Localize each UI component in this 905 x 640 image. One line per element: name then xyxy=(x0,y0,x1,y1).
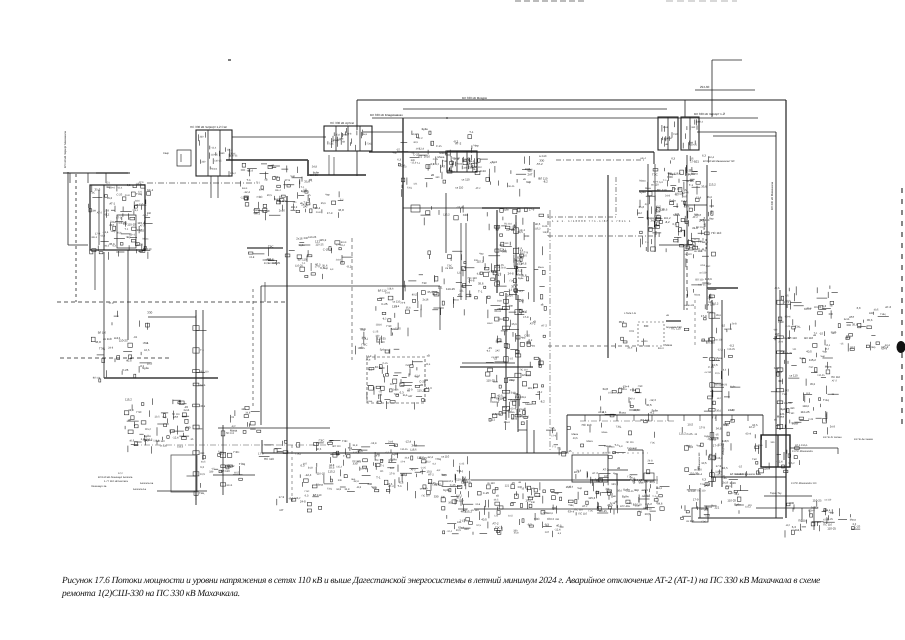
svg-text:10,5: 10,5 xyxy=(752,423,758,427)
svg-text:ГЭС: ГЭС xyxy=(627,476,632,479)
svg-text:-12,4: -12,4 xyxy=(717,349,723,352)
svg-text:ГЭС: ГЭС xyxy=(342,440,347,443)
svg-text:-15: -15 xyxy=(523,255,527,258)
svg-text:С-25: С-25 xyxy=(421,467,427,470)
svg-text:110-25: 110-25 xyxy=(727,348,735,351)
svg-text:34,8: 34,8 xyxy=(338,208,344,212)
svg-text:40,5: 40,5 xyxy=(413,141,418,144)
svg-text:6,3: 6,3 xyxy=(477,273,481,276)
svg-text:Маха: Маха xyxy=(211,167,218,170)
svg-text:115,2: 115,2 xyxy=(745,506,752,509)
svg-text:АТУ-41Б: АТУ-41Б xyxy=(620,505,631,508)
svg-text:2x16: 2x16 xyxy=(184,409,190,412)
svg-text:Чир: Чир xyxy=(474,143,480,147)
svg-text:330: 330 xyxy=(552,506,557,510)
svg-text:17-9: 17-9 xyxy=(700,248,706,252)
svg-text:35,6: 35,6 xyxy=(107,197,113,200)
svg-text:ГЭС: ГЭС xyxy=(789,412,794,415)
svg-text:ТЭЦ: ТЭЦ xyxy=(253,212,258,215)
svg-text:Т-1: Т-1 xyxy=(256,181,260,184)
svg-text:10,5: 10,5 xyxy=(155,416,161,419)
svg-text:ПС 110: ПС 110 xyxy=(520,369,529,372)
svg-text:Махачкала 110: Махачкала 110 xyxy=(698,452,701,470)
svg-text:ПС 110: ПС 110 xyxy=(671,327,681,331)
svg-text:С-25: С-25 xyxy=(483,491,490,495)
svg-text:6,3: 6,3 xyxy=(141,438,145,441)
svg-text:2x16: 2x16 xyxy=(610,502,616,505)
svg-text:17-9: 17-9 xyxy=(389,473,395,476)
svg-text:115,2: 115,2 xyxy=(709,183,716,187)
svg-text:35,6: 35,6 xyxy=(329,466,335,470)
svg-text:35,6: 35,6 xyxy=(512,323,518,326)
svg-text:Чир: Чир xyxy=(709,217,714,220)
svg-text:ВЛ 110: ВЛ 110 xyxy=(724,328,732,331)
svg-text:ск 110: ск 110 xyxy=(136,202,144,206)
svg-text:ПС 110: ПС 110 xyxy=(375,459,384,462)
svg-text:ВЛ 330 кВ Махачкала: ВЛ 330 кВ Махачкала xyxy=(770,182,774,210)
svg-text:2АТ: 2АТ xyxy=(704,483,709,487)
svg-text:115,2: 115,2 xyxy=(291,206,298,209)
svg-text:2АТ: 2АТ xyxy=(638,212,643,215)
svg-text:2АТ: 2АТ xyxy=(811,507,816,510)
svg-text:ТЭЦ: ТЭЦ xyxy=(795,325,800,328)
svg-text:330: 330 xyxy=(524,234,529,238)
svg-text:ПС 110: ПС 110 xyxy=(504,222,512,225)
svg-text:24-8: 24-8 xyxy=(663,126,668,129)
svg-text:10,5: 10,5 xyxy=(387,482,393,486)
svg-text:ВЛ 110: ВЛ 110 xyxy=(333,445,342,448)
svg-text:С-25: С-25 xyxy=(708,366,714,369)
svg-text:35,6: 35,6 xyxy=(635,505,640,508)
svg-text:6,3: 6,3 xyxy=(659,181,663,184)
svg-text:330: 330 xyxy=(846,323,851,327)
svg-text:35,6: 35,6 xyxy=(867,318,873,322)
svg-text:-15: -15 xyxy=(190,438,194,441)
svg-text:2АТ: 2АТ xyxy=(408,395,413,398)
svg-text:63+4: 63+4 xyxy=(702,241,708,244)
svg-text:35,6: 35,6 xyxy=(335,133,340,136)
svg-text:17-9: 17-9 xyxy=(461,480,467,483)
svg-text:ск 110: ск 110 xyxy=(651,184,659,187)
svg-text:121: 121 xyxy=(494,514,499,517)
svg-text:кВ: кВ xyxy=(613,495,616,498)
svg-text:ВЛ 330 кВ Моздок: ВЛ 330 кВ Моздок xyxy=(462,96,488,100)
svg-text:ск 110: ск 110 xyxy=(715,339,723,342)
svg-text:35,6: 35,6 xyxy=(109,242,115,246)
svg-text:330: 330 xyxy=(353,461,358,465)
svg-text:-12,4: -12,4 xyxy=(314,206,321,210)
svg-text:Буйн: Буйн xyxy=(144,434,151,438)
svg-text:34,8: 34,8 xyxy=(245,412,250,415)
svg-text:-12,4: -12,4 xyxy=(370,442,377,445)
svg-text:ТЭЦ: ТЭЦ xyxy=(99,346,106,350)
svg-text:С-25: С-25 xyxy=(785,325,791,328)
svg-text:-8,2: -8,2 xyxy=(650,412,655,415)
svg-text:6,3: 6,3 xyxy=(806,392,810,395)
svg-text:кВ: кВ xyxy=(617,467,620,470)
svg-text:24-8: 24-8 xyxy=(728,408,734,412)
svg-text:63+4: 63+4 xyxy=(641,157,647,160)
svg-text:330: 330 xyxy=(435,176,440,179)
svg-text:294-60: 294-60 xyxy=(700,85,710,89)
svg-text:6,3: 6,3 xyxy=(702,478,706,482)
svg-text:ск 110: ск 110 xyxy=(262,209,270,213)
svg-text:40,5: 40,5 xyxy=(775,287,780,290)
svg-text:-8,2: -8,2 xyxy=(368,369,373,372)
svg-text:330: 330 xyxy=(241,408,246,411)
svg-text:2x16: 2x16 xyxy=(279,209,286,213)
svg-text:АТ-2: АТ-2 xyxy=(823,518,829,521)
svg-text:Т-1: Т-1 xyxy=(478,290,483,294)
svg-text:-15: -15 xyxy=(738,466,742,469)
svg-text:2x16: 2x16 xyxy=(137,242,144,246)
svg-text:С-25: С-25 xyxy=(323,247,330,251)
svg-text:ГЭС: ГЭС xyxy=(652,173,658,177)
svg-text:кВ: кВ xyxy=(265,179,268,182)
svg-text:34,8: 34,8 xyxy=(345,488,350,491)
svg-text:С-25: С-25 xyxy=(383,362,389,365)
svg-text:-12,4: -12,4 xyxy=(405,439,412,443)
svg-text:ПС 110: ПС 110 xyxy=(264,457,274,461)
svg-text:40,5: 40,5 xyxy=(494,498,499,501)
svg-text:С-25: С-25 xyxy=(459,462,465,465)
svg-text:40,5: 40,5 xyxy=(503,406,508,409)
svg-text:Т-1: Т-1 xyxy=(522,310,527,314)
svg-text:2x16: 2x16 xyxy=(723,424,729,427)
svg-text:ПС 110: ПС 110 xyxy=(226,432,235,435)
svg-text:ГЭС: ГЭС xyxy=(510,280,515,283)
svg-text:АТ-2: АТ-2 xyxy=(630,398,636,401)
svg-text:ПС 330 кВ Артем: ПС 330 кВ Артем xyxy=(330,121,354,125)
svg-text:63+4: 63+4 xyxy=(776,370,783,374)
svg-text:115,2: 115,2 xyxy=(443,214,450,217)
svg-text:Чир: Чир xyxy=(871,346,876,349)
svg-text:17-9: 17-9 xyxy=(327,212,333,215)
svg-text:17-9: 17-9 xyxy=(407,388,413,391)
svg-text:121: 121 xyxy=(380,470,385,473)
svg-text:10,5: 10,5 xyxy=(645,512,651,516)
svg-text:121: 121 xyxy=(457,521,462,524)
svg-text:17-9: 17-9 xyxy=(453,157,459,161)
svg-text:2АТ: 2АТ xyxy=(519,299,524,303)
svg-text:110-25: 110-25 xyxy=(214,159,222,162)
svg-text:ск 110: ск 110 xyxy=(445,266,453,270)
svg-text:6,3: 6,3 xyxy=(619,445,623,448)
svg-text:35,6: 35,6 xyxy=(427,290,433,294)
svg-text:Маха: Маха xyxy=(619,411,626,415)
svg-text:121: 121 xyxy=(644,489,649,492)
svg-text:6,3: 6,3 xyxy=(200,466,204,469)
svg-text:-12,4: -12,4 xyxy=(305,473,312,477)
svg-text:41 ПС-Махачкала: 41 ПС-Махачкала xyxy=(792,450,813,453)
svg-text:ВЛ 330 кВ Чирюрт 1-Й: ВЛ 330 кВ Чирюрт 1-Й xyxy=(694,112,725,116)
svg-text:40,5: 40,5 xyxy=(264,262,269,265)
svg-text:ск 110: ск 110 xyxy=(686,180,694,183)
svg-text:2x16: 2x16 xyxy=(723,482,729,485)
svg-text:110-25: 110-25 xyxy=(801,410,810,414)
svg-text:121: 121 xyxy=(413,182,418,185)
svg-text:ВЛ 110: ВЛ 110 xyxy=(804,336,813,340)
svg-text:63+4: 63+4 xyxy=(492,400,499,404)
svg-text:34,8: 34,8 xyxy=(405,457,410,460)
svg-text:-12,4: -12,4 xyxy=(708,156,714,159)
svg-text:110-25: 110-25 xyxy=(690,143,698,146)
svg-text:330: 330 xyxy=(691,126,696,129)
svg-text:ТЭЦ: ТЭЦ xyxy=(327,488,332,491)
svg-text:115,2: 115,2 xyxy=(319,238,326,242)
svg-text:2x16: 2x16 xyxy=(844,318,850,321)
svg-text:кВ: кВ xyxy=(342,140,345,143)
svg-text:40,5: 40,5 xyxy=(650,480,656,484)
svg-text:110-25: 110-25 xyxy=(315,243,324,246)
svg-text:2АТ: 2АТ xyxy=(495,350,500,353)
svg-text:ГЭС: ГЭС xyxy=(673,133,678,136)
svg-text:121: 121 xyxy=(502,396,507,399)
svg-text:118,6: 118,6 xyxy=(785,299,791,302)
svg-text:115,2: 115,2 xyxy=(417,388,425,392)
svg-text:24-8: 24-8 xyxy=(700,264,705,267)
svg-text:Буйн: Буйн xyxy=(503,208,509,211)
svg-text:ГЭС: ГЭС xyxy=(422,282,427,285)
svg-text:35,6: 35,6 xyxy=(617,489,622,492)
svg-text:110-25: 110-25 xyxy=(400,448,408,451)
svg-text:17-9: 17-9 xyxy=(701,314,707,318)
svg-text:Т-1: Т-1 xyxy=(200,349,204,352)
svg-text:115,2: 115,2 xyxy=(230,172,236,175)
svg-text:кВ: кВ xyxy=(427,355,430,358)
svg-text:63+4: 63+4 xyxy=(92,236,98,239)
svg-text:24-8: 24-8 xyxy=(249,256,255,259)
svg-text:-12,4: -12,4 xyxy=(618,387,624,390)
svg-text:Маха: Маха xyxy=(777,414,785,418)
svg-text:6,3: 6,3 xyxy=(558,532,562,535)
svg-text:10,5: 10,5 xyxy=(492,413,497,416)
svg-text:С-25: С-25 xyxy=(373,330,379,333)
svg-text:АТ-2: АТ-2 xyxy=(885,305,891,309)
svg-text:2АТ: 2АТ xyxy=(775,333,780,336)
svg-text:ВЛ 110: ВЛ 110 xyxy=(98,332,107,335)
svg-text:63+4: 63+4 xyxy=(147,189,154,192)
svg-text:115,2: 115,2 xyxy=(664,216,671,220)
svg-text:330: 330 xyxy=(362,336,367,339)
svg-text:ВЛ 110: ВЛ 110 xyxy=(93,377,101,380)
svg-text:118,6: 118,6 xyxy=(177,445,184,448)
svg-text:-8,2: -8,2 xyxy=(104,213,109,217)
svg-text:Маха: Маха xyxy=(707,311,714,314)
svg-text:6,3: 6,3 xyxy=(853,523,857,526)
svg-text:121: 121 xyxy=(611,483,616,486)
svg-text:Т-1: Т-1 xyxy=(814,332,818,335)
svg-text:110-25: 110-25 xyxy=(817,374,825,377)
svg-text:кВ: кВ xyxy=(272,164,275,167)
svg-text:ск 110: ск 110 xyxy=(685,253,692,256)
svg-text:118,6: 118,6 xyxy=(722,439,729,443)
svg-text:2x16: 2x16 xyxy=(393,388,399,391)
svg-text:330: 330 xyxy=(463,213,468,217)
svg-text:35,6: 35,6 xyxy=(304,180,310,184)
svg-text:АТ-2: АТ-2 xyxy=(97,212,103,215)
svg-text:Чир: Чир xyxy=(126,235,131,239)
svg-text:Буйн: Буйн xyxy=(390,457,397,461)
svg-text:ск 110: ск 110 xyxy=(393,301,401,304)
svg-text:63+4: 63+4 xyxy=(696,473,702,476)
svg-text:6,3: 6,3 xyxy=(723,369,727,372)
svg-text:110-25: 110-25 xyxy=(814,306,822,309)
svg-text:115,2: 115,2 xyxy=(145,428,152,431)
svg-text:ВЛ 110 кВ Ленинаул Белгата: ВЛ 110 кВ Ленинаул Белгата xyxy=(98,476,133,479)
svg-text:-8,2: -8,2 xyxy=(644,203,649,206)
svg-text:АТ-2: АТ-2 xyxy=(226,466,232,469)
svg-text:Чир: Чир xyxy=(291,175,296,178)
svg-text:40,5: 40,5 xyxy=(129,439,134,442)
svg-text:-15: -15 xyxy=(819,332,823,335)
svg-text:121: 121 xyxy=(505,484,510,487)
svg-text:24-8: 24-8 xyxy=(468,279,474,283)
svg-text:ТЭЦ: ТЭЦ xyxy=(616,425,621,428)
svg-text:24-8: 24-8 xyxy=(682,195,688,198)
svg-text:Чир: Чир xyxy=(479,252,484,255)
svg-text:ск 110: ск 110 xyxy=(825,498,832,501)
svg-text:2АТ: 2АТ xyxy=(303,205,308,208)
svg-text:63+4: 63+4 xyxy=(568,510,575,514)
svg-text:-8,2: -8,2 xyxy=(674,193,679,196)
svg-text:Чир: Чир xyxy=(531,345,536,348)
svg-text:-8,2: -8,2 xyxy=(544,524,549,527)
svg-text:АТ-2: АТ-2 xyxy=(428,474,434,477)
svg-text:34,8: 34,8 xyxy=(336,488,341,491)
svg-text:63+4: 63+4 xyxy=(785,316,791,319)
svg-text:ГЭС: ГЭС xyxy=(257,195,264,199)
svg-text:110-25: 110-25 xyxy=(813,498,822,502)
svg-text:С-25: С-25 xyxy=(436,145,442,148)
svg-text:кВ: кВ xyxy=(458,292,461,296)
svg-text:ск 110: ск 110 xyxy=(641,340,648,343)
svg-text:Белгата 1а: Белгата 1а xyxy=(133,488,147,491)
svg-text:Ленинаул-1а: Ленинаул-1а xyxy=(91,485,107,488)
svg-text:АТ-2: АТ-2 xyxy=(116,217,122,220)
svg-text:-15: -15 xyxy=(715,434,719,437)
svg-text:Маха: Маха xyxy=(508,411,515,414)
svg-text:24-8: 24-8 xyxy=(732,323,738,326)
svg-text:24-8: 24-8 xyxy=(501,267,507,270)
svg-text:110-25: 110-25 xyxy=(698,284,706,287)
svg-text:24-8: 24-8 xyxy=(473,168,479,171)
svg-text:ПС 110: ПС 110 xyxy=(144,439,153,442)
svg-text:35,6: 35,6 xyxy=(716,314,721,317)
svg-text:кВ: кВ xyxy=(431,173,434,177)
svg-text:ск 110: ск 110 xyxy=(674,188,682,191)
svg-text:10,5: 10,5 xyxy=(448,480,453,483)
svg-text:кВ: кВ xyxy=(774,419,777,422)
svg-text:Чир: Чир xyxy=(829,511,835,515)
svg-text:10,5: 10,5 xyxy=(715,372,720,375)
svg-text:ВЛ 110: ВЛ 110 xyxy=(695,279,704,282)
svg-text:ПС 110: ПС 110 xyxy=(626,441,635,444)
svg-text:Маха: Маха xyxy=(716,356,723,360)
svg-text:17-9: 17-9 xyxy=(551,435,557,438)
svg-text:Чир: Чир xyxy=(509,304,514,307)
svg-text:34,8: 34,8 xyxy=(651,219,657,223)
svg-text:-12,4: -12,4 xyxy=(456,206,463,209)
svg-text:330: 330 xyxy=(186,426,191,430)
svg-text:35,6: 35,6 xyxy=(95,187,101,191)
svg-text:330: 330 xyxy=(531,501,536,504)
svg-text:Маха: Маха xyxy=(602,431,608,434)
svg-text:17-9: 17-9 xyxy=(279,495,285,499)
svg-text:115,2: 115,2 xyxy=(716,457,723,460)
svg-text:115,2: 115,2 xyxy=(588,496,595,500)
svg-text:330: 330 xyxy=(467,162,472,166)
svg-text:ВЛ 110 кВ Махачкала ГЭС: ВЛ 110 кВ Махачкала ГЭС xyxy=(703,160,735,163)
svg-text:24-8: 24-8 xyxy=(400,302,405,305)
svg-text:С-25: С-25 xyxy=(808,418,814,421)
svg-text:10,5: 10,5 xyxy=(200,473,205,476)
svg-text:2АТ: 2АТ xyxy=(173,415,178,419)
svg-text:6,3: 6,3 xyxy=(520,249,524,252)
svg-text:2АТ: 2АТ xyxy=(279,509,284,512)
svg-text:118,6: 118,6 xyxy=(656,487,663,490)
svg-text:-12,4: -12,4 xyxy=(117,186,123,189)
svg-text:С-25: С-25 xyxy=(450,484,456,487)
svg-text:1 и 1. 1/10000 771-1/86 1 7: 1 и 1. 1/10000 771-1/86 1 7011 1 xyxy=(552,219,632,223)
svg-text:34,8: 34,8 xyxy=(95,340,101,344)
svg-text:Маха: Маха xyxy=(143,237,150,240)
svg-text:ПС 110: ПС 110 xyxy=(798,520,807,523)
svg-text:121: 121 xyxy=(792,348,797,351)
svg-text:Буйн: Буйн xyxy=(800,357,806,360)
svg-text:2АТ: 2АТ xyxy=(109,224,114,227)
svg-text:ТЭЦ: ТЭЦ xyxy=(199,492,204,495)
svg-text:118,6: 118,6 xyxy=(543,231,550,234)
svg-text:118,6: 118,6 xyxy=(376,323,383,326)
svg-text:-8,2: -8,2 xyxy=(688,445,693,449)
svg-text:Маха: Маха xyxy=(645,187,651,190)
svg-text:2АТ: 2АТ xyxy=(785,390,790,393)
svg-text:6,3: 6,3 xyxy=(702,154,706,158)
svg-text:40,5: 40,5 xyxy=(573,437,578,440)
svg-text:10,5: 10,5 xyxy=(687,423,693,427)
svg-text:2АТ: 2АТ xyxy=(528,173,533,177)
svg-text:АТ-2: АТ-2 xyxy=(476,187,482,190)
svg-text:2АТ: 2АТ xyxy=(869,312,874,315)
svg-text:Т-1: Т-1 xyxy=(712,417,717,420)
svg-text:ТЭЦ: ТЭЦ xyxy=(568,504,573,507)
svg-text:10,5: 10,5 xyxy=(267,194,273,197)
svg-text:35,6: 35,6 xyxy=(701,185,707,189)
svg-text:110-25: 110-25 xyxy=(497,318,505,321)
svg-text:Маха: Маха xyxy=(639,180,646,183)
svg-text:Чир: Чир xyxy=(554,492,559,495)
svg-text:6,3: 6,3 xyxy=(433,462,437,465)
svg-text:-8,2: -8,2 xyxy=(382,318,387,321)
svg-text:40,5: 40,5 xyxy=(126,359,132,363)
svg-text:ГЭС: ГЭС xyxy=(651,441,656,444)
svg-text:118,6: 118,6 xyxy=(410,448,417,451)
svg-text:АТ-1 156,1: АТ-1 156,1 xyxy=(795,444,808,447)
svg-text:40,5: 40,5 xyxy=(633,409,639,412)
svg-text:АТ-2: АТ-2 xyxy=(693,216,699,219)
svg-text:115,2: 115,2 xyxy=(227,148,233,151)
svg-text:110-25: 110-25 xyxy=(827,527,836,531)
svg-text:330: 330 xyxy=(501,411,506,415)
svg-text:ПС 110: ПС 110 xyxy=(711,231,721,235)
svg-text:330: 330 xyxy=(147,310,152,314)
svg-text:63+4: 63+4 xyxy=(746,432,752,435)
svg-text:кВ: кВ xyxy=(461,285,464,289)
svg-text:2АТ: 2АТ xyxy=(545,531,550,534)
svg-text:-15: -15 xyxy=(568,449,572,453)
svg-text:ПС 110: ПС 110 xyxy=(697,490,706,493)
